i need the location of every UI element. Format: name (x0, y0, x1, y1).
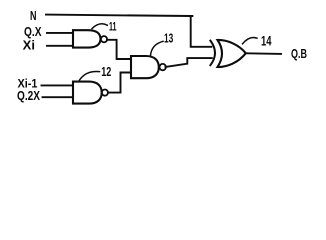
leader 13 (151, 41, 164, 55)
nand gate U12 (73, 82, 102, 104)
wire N to XOR top input (46, 15, 211, 47)
wire U13 out to XOR (166, 58, 212, 67)
wire U12 out to U13 (108, 73, 131, 93)
bubble U11 (101, 36, 107, 42)
svg-text:13: 13 (164, 30, 173, 45)
svg-text:Q.2X: Q.2X (17, 89, 41, 103)
wire Q.X to U11 (47, 32, 73, 34)
svg-text:14: 14 (261, 34, 272, 49)
xor gate U14 body (218, 40, 246, 67)
leader 12 (80, 71, 100, 80)
wire Xi-1 to U12 (42, 84, 74, 86)
svg-text:Xi: Xi (23, 39, 35, 53)
bubble U13 (160, 64, 166, 70)
leader 14 (243, 38, 258, 44)
bubble U12 (102, 90, 108, 96)
wire Xi to U11 (47, 45, 73, 47)
leader 11 (92, 24, 107, 29)
wire Q.2X to U12 (43, 96, 74, 98)
nand gate U11 (73, 30, 101, 47)
svg-text:12: 12 (101, 64, 111, 79)
xor gate U14 input arc (210, 41, 215, 66)
nand gate U13 (131, 56, 159, 78)
wire U11 out to U13 (107, 40, 131, 59)
wire U14 out (246, 52, 281, 55)
svg-text:N: N (30, 8, 37, 23)
svg-text:Q.X: Q.X (24, 25, 42, 39)
svg-text:11: 11 (109, 20, 117, 34)
svg-text:Q.B: Q.B (291, 46, 307, 61)
